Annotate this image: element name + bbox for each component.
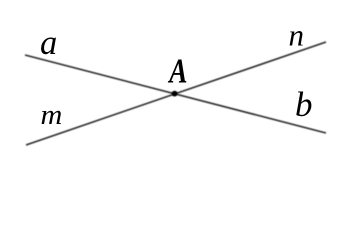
svg-text:a: a xyxy=(40,24,57,62)
line m-n xyxy=(26,42,326,145)
svg-text:A: A xyxy=(167,51,187,90)
line a-b xyxy=(25,55,326,133)
svg-text:n: n xyxy=(289,17,305,52)
point A xyxy=(172,91,178,97)
svg-text:b: b xyxy=(295,85,313,124)
svg-text:m: m xyxy=(41,100,63,131)
